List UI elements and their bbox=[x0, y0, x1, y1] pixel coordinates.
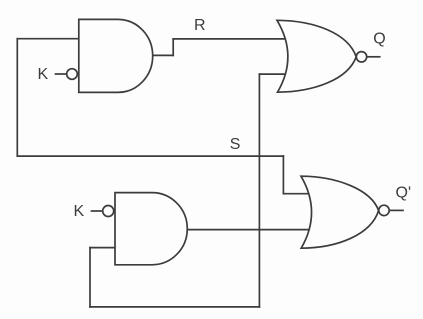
wire: U4 output to U3 bottom input bbox=[187, 229, 311, 231]
wire: step up to R bbox=[172, 39, 174, 56]
wire: feedback vertical bbox=[89, 248, 91, 307]
wire: bottom feedback row bbox=[90, 306, 259, 308]
output bubble U3 bbox=[379, 205, 389, 215]
input bubble U1 bbox=[67, 69, 78, 80]
wire: U1 top input from left rail bbox=[17, 38, 80, 40]
wire: U4 bottom input bbox=[90, 247, 116, 249]
wire: long vertical rail bbox=[258, 74, 260, 307]
and-gate U4 (K input inverted) bbox=[115, 193, 187, 265]
wire: R net to U2 top input bbox=[173, 38, 287, 40]
wire: U1 output bbox=[153, 54, 174, 56]
wire: K stub to U1 bubble bbox=[56, 73, 67, 75]
svg-text:K: K bbox=[74, 203, 85, 220]
nor-gate U2 bbox=[277, 20, 356, 92]
wire: U2 bottom input bbox=[259, 73, 287, 75]
input bubble U4 bbox=[103, 206, 114, 217]
svg-text:S: S bbox=[230, 136, 241, 153]
svg-text:R: R bbox=[194, 17, 206, 34]
wire: U3 top input bbox=[283, 193, 310, 195]
wire: Q' output bbox=[390, 209, 404, 211]
svg-text:Q': Q' bbox=[396, 185, 412, 202]
wire: S row horizontal bbox=[17, 155, 283, 157]
wire: K stub to U4 bubble bbox=[92, 210, 103, 212]
output bubble U2 bbox=[356, 52, 366, 62]
svg-text:Q: Q bbox=[373, 30, 385, 47]
wire: Q output bbox=[367, 56, 380, 58]
and-gate U1 (K input inverted) bbox=[79, 19, 153, 92]
svg-text:K: K bbox=[38, 66, 49, 83]
wire: S net drop to U3 bbox=[282, 156, 284, 194]
nor-gate U3 bbox=[301, 176, 379, 248]
wire: left vertical rail bbox=[16, 39, 18, 156]
